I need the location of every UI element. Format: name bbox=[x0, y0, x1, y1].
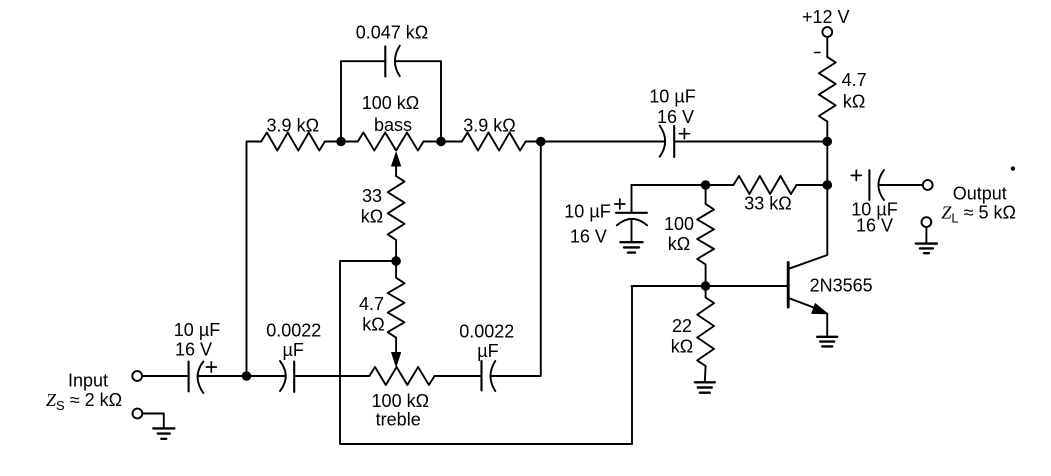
wire bbox=[491, 142, 541, 377]
svg-text:16 V: 16 V bbox=[175, 340, 212, 360]
treble wiper arrow bbox=[392, 338, 401, 367]
wire bbox=[826, 37, 828, 57]
ground bbox=[153, 428, 174, 438]
wire bbox=[878, 184, 922, 186]
svg-text:16 V: 16 V bbox=[856, 216, 893, 236]
ground bbox=[916, 244, 937, 254]
node G bbox=[823, 181, 832, 190]
potentiometer R6 100 kOhm treble bbox=[369, 367, 434, 385]
resistor R9 100 kOhm bbox=[697, 204, 714, 265]
resistor R3 3.9 kOhm bbox=[462, 133, 526, 151]
input ground terminal bbox=[133, 409, 143, 419]
svg-text:0.0022: 0.0022 bbox=[266, 321, 321, 341]
capacitor C6 10 uF bbox=[615, 199, 647, 225]
svg-text:33: 33 bbox=[362, 186, 382, 206]
wire bbox=[826, 142, 828, 186]
svg-text:100 kΩ: 100 kΩ bbox=[372, 391, 430, 411]
node B bbox=[337, 137, 346, 146]
svg-text:kΩ: kΩ bbox=[843, 92, 865, 112]
wire bbox=[341, 61, 385, 141]
wire bbox=[395, 261, 397, 278]
wire bbox=[435, 375, 481, 377]
wire bbox=[247, 142, 262, 377]
svg-text:16 V: 16 V bbox=[657, 107, 694, 127]
capacitor C2 0.047 kOhm bbox=[385, 46, 400, 77]
wire bbox=[395, 61, 441, 141]
resistor R5 4.7 kOhm bbox=[388, 278, 405, 338]
wire bbox=[705, 265, 707, 287]
svg-text:µF: µF bbox=[477, 341, 498, 361]
svg-text:kΩ: kΩ bbox=[362, 315, 384, 335]
capacitor C4 0.0022 uF bbox=[482, 361, 496, 391]
wire bbox=[631, 185, 633, 213]
wire bbox=[541, 141, 665, 143]
svg-text:100: 100 bbox=[664, 214, 694, 234]
wire bbox=[706, 285, 788, 287]
resistor R8 33 kOhm bbox=[733, 176, 796, 194]
resistor R4 33 kOhm bbox=[388, 176, 405, 240]
wire bbox=[925, 227, 927, 243]
node F (collector load junction) bbox=[823, 137, 832, 146]
wire bbox=[705, 286, 707, 298]
wire bbox=[441, 141, 462, 143]
bass wiper arrow bbox=[392, 153, 401, 177]
svg-text:3.9 kΩ: 3.9 kΩ bbox=[267, 116, 319, 136]
node I (base junction) bbox=[701, 282, 710, 291]
wire bbox=[632, 285, 706, 287]
svg-text:10 µF: 10 µF bbox=[174, 320, 220, 340]
svg-text:4.7: 4.7 bbox=[359, 294, 384, 314]
svg-text:µF: µF bbox=[283, 340, 304, 360]
svg-text:22: 22 bbox=[672, 316, 692, 336]
svg-text:4.7: 4.7 bbox=[842, 70, 867, 90]
resistor R1 3.9 kOhm bbox=[261, 133, 325, 151]
input terminal bbox=[132, 371, 142, 381]
ground bbox=[817, 337, 837, 347]
wire bbox=[395, 240, 397, 261]
wire bbox=[247, 375, 286, 377]
wire bbox=[198, 375, 247, 377]
wire bbox=[674, 141, 827, 143]
wire bbox=[705, 185, 707, 204]
wire bbox=[341, 141, 358, 143]
stray dot bbox=[1011, 167, 1014, 170]
svg-text:0.0022: 0.0022 bbox=[459, 322, 514, 342]
svg-text:kΩ: kΩ bbox=[361, 207, 383, 227]
svg-text:bass: bass bbox=[374, 115, 412, 135]
wire bbox=[632, 184, 706, 186]
wire bbox=[826, 122, 828, 142]
svg-text:10 µF: 10 µF bbox=[649, 87, 695, 107]
svg-text:treble: treble bbox=[376, 410, 421, 430]
svg-text:kΩ: kΩ bbox=[671, 337, 693, 357]
svg-text:+12 V: +12 V bbox=[802, 7, 850, 27]
resistor R7 4.7 kOhm bbox=[819, 57, 836, 122]
wire bbox=[797, 184, 828, 186]
wire bbox=[704, 366, 707, 382]
wire bbox=[340, 261, 632, 444]
node A (input junction) bbox=[242, 372, 251, 381]
wire bbox=[325, 141, 341, 143]
+12V supply terminal bbox=[822, 27, 832, 37]
resistor R10 22 kOhm bbox=[697, 298, 714, 367]
svg-text:2N3565: 2N3565 bbox=[810, 276, 873, 296]
svg-text:kΩ: kΩ bbox=[668, 234, 690, 254]
capacitor C7 10 uF output bbox=[851, 170, 884, 200]
svg-text:Output: Output bbox=[953, 184, 1007, 204]
node H bbox=[701, 181, 710, 190]
ground bbox=[621, 242, 643, 252]
wire bbox=[142, 375, 189, 377]
transistor Q1 2N3565 bbox=[788, 185, 827, 337]
capacitor C5 10 uF bbox=[660, 126, 690, 157]
svg-text:33 kΩ: 33 kΩ bbox=[744, 194, 791, 214]
svg-text:10 µF: 10 µF bbox=[564, 202, 610, 222]
svg-text:0.047 kΩ: 0.047 kΩ bbox=[356, 23, 429, 43]
wire bbox=[424, 141, 442, 143]
wire bbox=[631, 219, 633, 242]
svg-text:3.9 kΩ: 3.9 kΩ bbox=[463, 116, 515, 136]
capacitor C1 10 uF bbox=[189, 362, 217, 394]
potentiometer R2 100 kOhm bass bbox=[358, 133, 424, 151]
stray mark bbox=[815, 52, 821, 54]
wire bbox=[526, 141, 541, 143]
ground bbox=[695, 382, 715, 392]
node D bbox=[537, 137, 546, 146]
capacitor C3 0.0022 uF bbox=[280, 361, 294, 392]
node C bbox=[437, 137, 446, 146]
node E (feedback junction) bbox=[392, 257, 401, 266]
svg-text:16 V: 16 V bbox=[570, 227, 607, 247]
wire bbox=[706, 184, 734, 186]
svg-text:100 kΩ: 100 kΩ bbox=[362, 93, 420, 113]
wire bbox=[142, 414, 164, 428]
output terminal bbox=[923, 180, 933, 190]
svg-text:Input: Input bbox=[68, 371, 108, 391]
wire bbox=[294, 375, 369, 377]
output ground terminal bbox=[922, 217, 932, 227]
